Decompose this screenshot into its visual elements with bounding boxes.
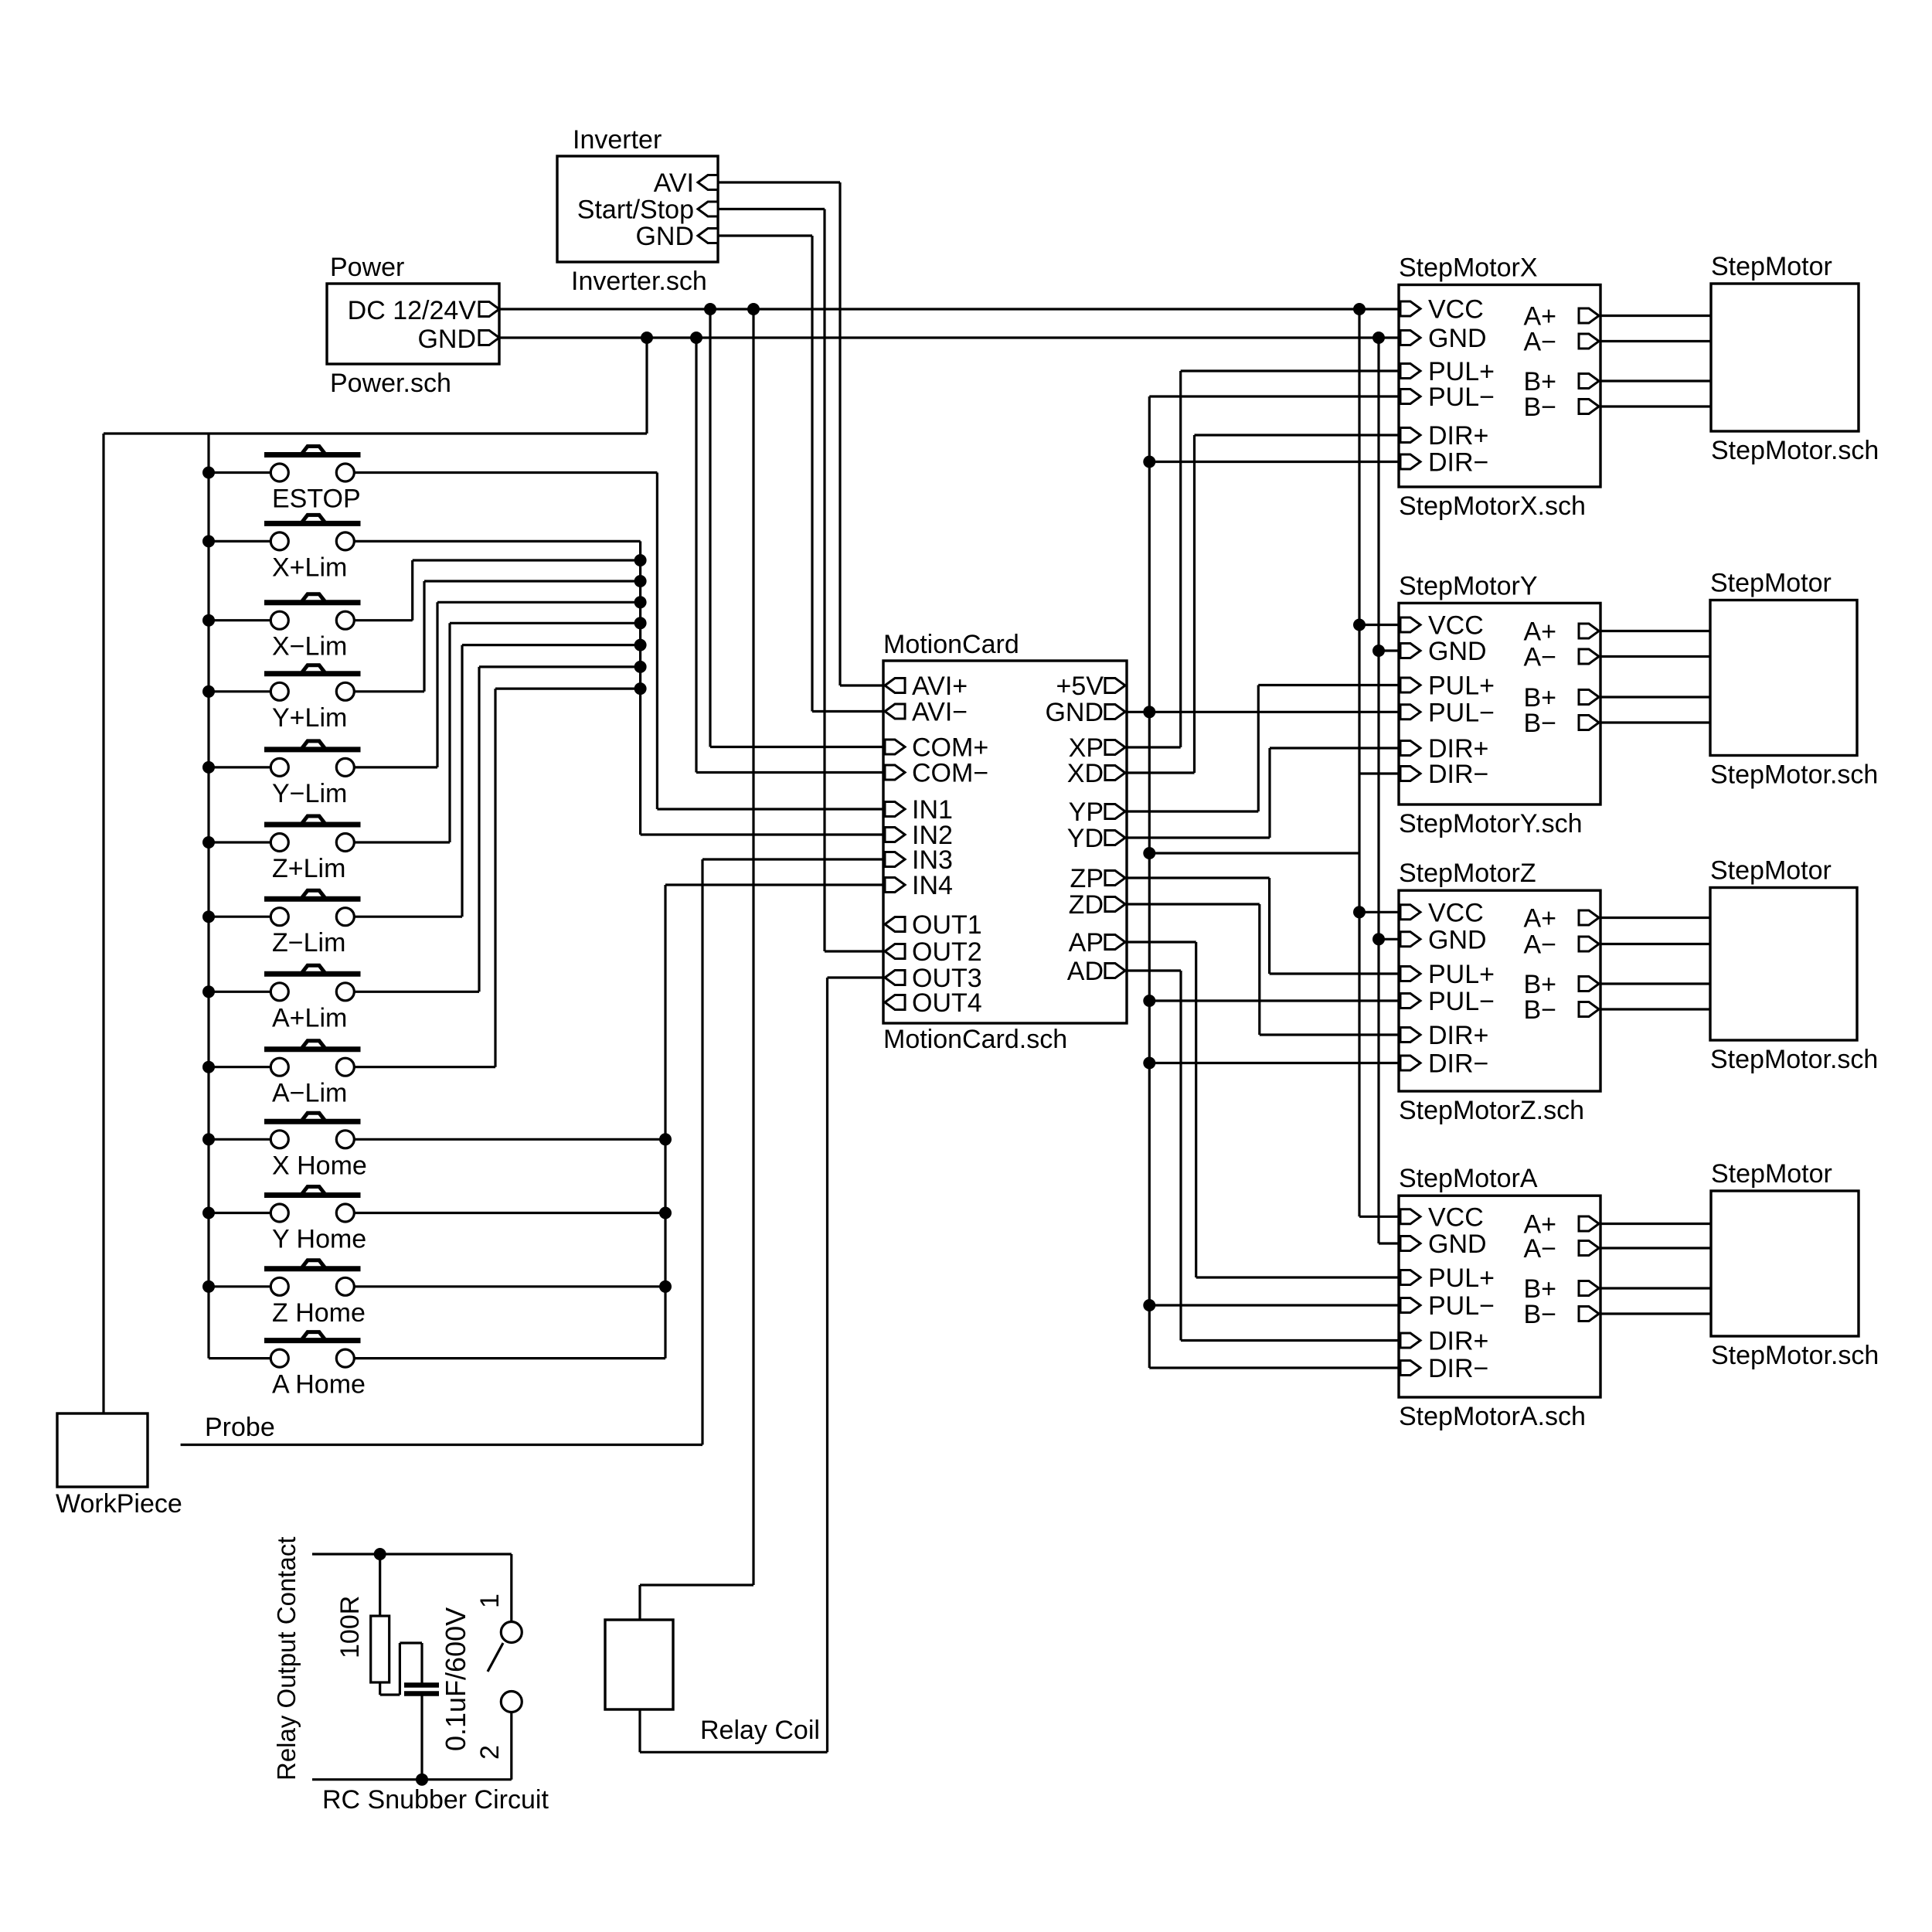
pin GND (StepMotorZ) xyxy=(1400,932,1420,947)
junction bus / ESTOP row xyxy=(202,467,215,479)
WorkPiece block xyxy=(57,1413,148,1487)
wire COM bus to X PUL- xyxy=(1149,395,1399,397)
svg-text:OUT4: OUT4 xyxy=(912,988,982,1018)
junction merge bus / Z+Lim xyxy=(634,617,647,629)
relay coil K1 xyxy=(605,1620,673,1709)
svg-text:ZP: ZP xyxy=(1070,864,1104,893)
StepMotor box (motor for X axis) xyxy=(1711,284,1859,431)
svg-text:DIR+: DIR+ xyxy=(1428,421,1488,451)
pin A+ (StepMotorA) xyxy=(1579,1216,1599,1231)
svg-text:ZD: ZD xyxy=(1069,890,1104,920)
wire YP net: MotionCard YP to StepMotorY PUL+ xyxy=(1127,810,1258,812)
Power block xyxy=(327,284,499,364)
wire COM bus to A PUL- xyxy=(1149,1304,1399,1306)
relay contact lever xyxy=(488,1643,503,1672)
svg-text:AD: AD xyxy=(1067,957,1104,986)
wire GND rail (Power to StepMotorX GND) xyxy=(499,336,1399,338)
switch X+Lim xyxy=(264,521,361,526)
RC snubber: top rail xyxy=(312,1553,512,1555)
wire Home bus to IN4 xyxy=(665,883,883,886)
svg-text:IN4: IN4 xyxy=(912,871,953,900)
wire Y A- to motor xyxy=(1600,655,1710,658)
svg-text:X+Lim: X+Lim xyxy=(272,553,347,582)
switch X Home xyxy=(264,1119,361,1124)
wire bus to Z−Lim switch xyxy=(209,916,270,918)
wire VCC bus vertical xyxy=(1358,309,1360,1216)
switch X−Lim xyxy=(264,600,361,605)
svg-text:Relay Output Contact: Relay Output Contact xyxy=(272,1537,301,1781)
junction DC rail / COM+ drop xyxy=(704,303,716,315)
svg-text:PUL−: PUL− xyxy=(1428,383,1495,412)
svg-text:B−: B− xyxy=(1523,995,1556,1025)
junction merge bus / Y-Lim xyxy=(634,596,647,608)
switch A−Lim xyxy=(264,1046,361,1052)
svg-text:GND: GND xyxy=(1428,925,1487,954)
wire Z A+ to motor xyxy=(1600,917,1710,919)
svg-text:A+: A+ xyxy=(1523,904,1556,934)
pin OUT4 (MotionCard left) xyxy=(885,995,905,1010)
junction COM bus / Y DIR- jog xyxy=(1143,847,1155,859)
junction VCC bus / Y VCC xyxy=(1353,619,1366,631)
svg-text:StepMotorX.sch: StepMotorX.sch xyxy=(1399,492,1586,521)
wire XD net: MotionCard XD to StepMotorX DIR+ xyxy=(1127,771,1195,774)
pin YD (MotionCard right) xyxy=(1105,831,1125,845)
junction COM bus / Z PUL- xyxy=(1143,995,1155,1007)
svg-text:DIR+: DIR+ xyxy=(1428,1021,1488,1050)
svg-text:MotionCard.sch: MotionCard.sch xyxy=(883,1025,1067,1054)
pin PUL- (StepMotorZ) xyxy=(1400,994,1420,1009)
wire Y A+ to motor xyxy=(1600,630,1710,632)
pin PUL+ (StepMotorY) xyxy=(1400,678,1420,692)
pin DIR- (StepMotorA) xyxy=(1400,1361,1420,1376)
svg-text:AVI+: AVI+ xyxy=(912,672,968,701)
wire ESTOP to IN1 xyxy=(354,471,657,474)
MotionCard block U-MC xyxy=(883,661,1127,1023)
svg-text:StepMotorZ: StepMotorZ xyxy=(1399,859,1536,888)
wire A A- to motor xyxy=(1600,1247,1711,1249)
wire DC 12/24V rail (Power to StepMotorX VCC) xyxy=(499,308,1399,310)
wire GND bus to Y GND xyxy=(1379,649,1399,651)
svg-text:Z Home: Z Home xyxy=(272,1298,366,1328)
wire bus to Y Home switch xyxy=(209,1212,270,1214)
pin DIR+ (StepMotorY) xyxy=(1400,741,1420,756)
svg-text:DIR−: DIR− xyxy=(1428,1354,1488,1383)
wire Z Home to Home bus xyxy=(354,1285,665,1287)
wire Y DIR- from VCC-bus column xyxy=(1359,772,1399,774)
svg-text:VCC: VCC xyxy=(1428,611,1484,641)
switch ESTOP xyxy=(264,452,361,457)
pin B- (StepMotorX) xyxy=(1579,400,1599,414)
pin A+ (StepMotorX) xyxy=(1579,308,1599,323)
wire YD net: MotionCard YD to StepMotorY DIR+ xyxy=(1127,836,1270,838)
wire limit merge bus to IN2 xyxy=(641,833,883,835)
wire bus to X−Lim switch xyxy=(209,619,270,621)
svg-text:StepMotor: StepMotor xyxy=(1711,252,1832,281)
svg-text:StepMotor.sch: StepMotor.sch xyxy=(1710,760,1878,790)
wire VCC bus to Y VCC xyxy=(1359,624,1399,626)
svg-text:PUL−: PUL− xyxy=(1428,1291,1495,1321)
svg-text:X Home: X Home xyxy=(272,1151,367,1180)
wire COM bus vertical (MotionCard GND to PUL-/DIR- pins) xyxy=(1148,396,1151,1368)
wire X A- to motor xyxy=(1600,340,1711,342)
wire bus to ESTOP switch xyxy=(209,471,270,474)
svg-text:Y−Lim: Y−Lim xyxy=(272,779,347,808)
pin A- (StepMotorY) xyxy=(1579,649,1599,664)
junction snubber top / resistor xyxy=(374,1548,386,1560)
junction COM bus / X DIR- xyxy=(1143,456,1155,468)
wire Home bus vertical xyxy=(664,885,666,1359)
junction Home bus / Y Home xyxy=(659,1207,672,1219)
wire COM bus to Z PUL- xyxy=(1149,999,1399,1002)
wire bus to X Home switch xyxy=(209,1138,270,1141)
junction GND rail / GND bus xyxy=(1372,332,1385,344)
wire VCC bus to A VCC xyxy=(1359,1216,1399,1218)
svg-text:0.1uF/600V: 0.1uF/600V xyxy=(440,1607,471,1751)
junction bus / X+Lim row xyxy=(202,535,215,547)
pin AD (MotionCard right) xyxy=(1105,964,1125,978)
junction bus / Y+Lim row xyxy=(202,685,215,698)
svg-text:Power: Power xyxy=(330,253,404,282)
svg-text:ESTOP: ESTOP xyxy=(272,485,361,514)
wire bus to A−Lim switch xyxy=(209,1066,270,1068)
junction merge bus / X-Lim xyxy=(634,554,647,566)
junction bus / Z−Lim row xyxy=(202,910,215,923)
junction bus / A−Lim row xyxy=(202,1061,215,1073)
svg-text:A−: A− xyxy=(1523,1234,1556,1264)
svg-text:GND: GND xyxy=(1428,324,1487,353)
RC snubber: right drop to contact 1 xyxy=(510,1554,512,1622)
svg-text:StepMotorX: StepMotorX xyxy=(1399,253,1538,283)
pin DIR+ (StepMotorX) xyxy=(1400,428,1420,443)
pin VCC (StepMotorA) xyxy=(1400,1209,1420,1224)
svg-text:VCC: VCC xyxy=(1428,295,1484,325)
StepMotor box (motor for Z axis) xyxy=(1710,888,1857,1041)
svg-text:Probe: Probe xyxy=(205,1413,275,1442)
wire X B+ to motor xyxy=(1600,379,1711,382)
junction snubber bottom / capacitor xyxy=(416,1774,428,1786)
svg-text:VCC: VCC xyxy=(1428,1202,1484,1232)
junction bus / X Home row xyxy=(202,1133,215,1145)
wire OUT3 net: MotionCard OUT3 to Relay Coil bottom xyxy=(828,976,884,978)
pin DIR- (StepMotorX) xyxy=(1400,454,1420,469)
pin PUL- (StepMotorX) xyxy=(1400,389,1420,404)
wire X A+ to motor xyxy=(1600,315,1711,317)
svg-text:B−: B− xyxy=(1523,709,1556,738)
wire Z B+ to motor xyxy=(1600,982,1710,985)
switch A Home xyxy=(264,1338,361,1343)
switch Z Home xyxy=(264,1266,361,1271)
junction GND rail / switch common drop xyxy=(641,332,653,344)
svg-text:PUL+: PUL+ xyxy=(1428,1264,1495,1293)
pin B- (StepMotorA) xyxy=(1579,1307,1599,1321)
wire COM bus to Z DIR- xyxy=(1149,1062,1399,1064)
wire AD net: MotionCard AD to StepMotorA DIR+ xyxy=(1127,969,1181,971)
pin Start/Stop (Inverter) xyxy=(698,202,718,216)
svg-text:GND: GND xyxy=(1428,1230,1487,1259)
svg-text:StepMotorY.sch: StepMotorY.sch xyxy=(1399,809,1583,838)
svg-text:DIR+: DIR+ xyxy=(1428,1327,1488,1356)
junction bus / Z+Lim row xyxy=(202,836,215,849)
wire A Home to Home bus xyxy=(354,1357,665,1359)
pin OUT3 (MotionCard left) xyxy=(885,971,905,985)
pin PUL- (StepMotorA) xyxy=(1400,1298,1420,1313)
svg-text:Relay Coil: Relay Coil xyxy=(700,1716,820,1745)
svg-text:Inverter.sch: Inverter.sch xyxy=(571,267,707,296)
svg-text:100R: 100R xyxy=(335,1596,365,1658)
wire A B+ to motor xyxy=(1600,1287,1711,1289)
wire A-Lim to limit merge bus xyxy=(354,1066,495,1068)
junction COM bus / MotionCard GND xyxy=(1143,706,1155,718)
wire COM bus to X DIR- xyxy=(1149,461,1399,463)
StepMotorZ driver block xyxy=(1399,890,1600,1091)
svg-text:StepMotor: StepMotor xyxy=(1710,856,1832,886)
wire X+Lim to limit merge bus xyxy=(354,540,640,543)
svg-text:StepMotor.sch: StepMotor.sch xyxy=(1710,1045,1878,1074)
pin PUL+ (StepMotorA) xyxy=(1400,1270,1420,1285)
pin B- (StepMotorZ) xyxy=(1579,1002,1599,1017)
wire ZD net: MotionCard ZD to StepMotorZ DIR+ xyxy=(1127,903,1260,905)
StepMotor box (motor for A axis) xyxy=(1711,1191,1859,1336)
svg-text:Power.sch: Power.sch xyxy=(330,369,451,398)
svg-text:AVI−: AVI− xyxy=(912,698,968,727)
svg-text:Y+Lim: Y+Lim xyxy=(272,703,347,733)
pin DIR- (StepMotorY) xyxy=(1400,767,1420,781)
pin OUT1 (MotionCard left) xyxy=(885,917,905,932)
svg-text:XD: XD xyxy=(1067,759,1104,788)
wire X Home to Home bus xyxy=(354,1138,665,1141)
Inverter block xyxy=(557,156,718,262)
pin GND (Power) xyxy=(479,331,499,345)
pin ZD (MotionCard right) xyxy=(1105,897,1125,912)
pin A+ (StepMotorY) xyxy=(1579,624,1599,638)
wire bus to Z Home switch xyxy=(209,1285,270,1287)
pin A+ (StepMotorZ) xyxy=(1579,910,1599,925)
relay contact 2 terminal xyxy=(501,1692,522,1713)
pin OUT2 (MotionCard left) xyxy=(885,944,905,959)
svg-text:2: 2 xyxy=(475,1745,505,1760)
pin AVI (Inverter) xyxy=(698,175,718,190)
wire switch common horizontal feeder xyxy=(104,432,647,434)
svg-text:GND: GND xyxy=(1045,698,1104,727)
switch Y+Lim xyxy=(264,671,361,676)
wire COM bus to A DIR- xyxy=(1149,1366,1399,1369)
pin GND (StepMotorA) xyxy=(1400,1236,1420,1251)
svg-text:PUL+: PUL+ xyxy=(1428,960,1495,989)
svg-text:StepMotor.sch: StepMotor.sch xyxy=(1711,436,1879,465)
wire Z+Lim to limit merge bus xyxy=(354,841,450,843)
wire X B- to motor xyxy=(1600,405,1711,407)
switch Y Home xyxy=(264,1192,361,1198)
pin AVI- (MotionCard left) xyxy=(885,704,905,719)
svg-text:StepMotor: StepMotor xyxy=(1710,569,1832,598)
junction bus / X−Lim row xyxy=(202,614,215,627)
switch Y−Lim xyxy=(264,747,361,752)
junction DC rail / VCC bus xyxy=(1353,303,1366,315)
pin A- (StepMotorA) xyxy=(1579,1241,1599,1256)
svg-text:GND: GND xyxy=(635,222,694,251)
wire AP net: MotionCard AP to StepMotorA PUL+ xyxy=(1127,940,1196,943)
svg-text:MotionCard: MotionCard xyxy=(883,630,1019,659)
pin VCC (StepMotorX) xyxy=(1400,301,1420,316)
wire ZP net: MotionCard ZP to StepMotorZ PUL+ xyxy=(1127,876,1270,879)
pin PUL- (StepMotorY) xyxy=(1400,705,1420,719)
pin ZP (MotionCard right) xyxy=(1105,871,1125,886)
svg-text:Start/Stop: Start/Stop xyxy=(577,196,694,225)
pin AP (MotionCard right) xyxy=(1105,935,1125,950)
wire Start/Stop net: Inverter Start/Stop to MotionCard OUT2 xyxy=(718,208,825,210)
wire capacitor bottom lead xyxy=(420,1696,423,1780)
svg-text:GND: GND xyxy=(1428,637,1487,666)
wire resistor top lead xyxy=(379,1554,381,1616)
svg-text:A−: A− xyxy=(1523,328,1556,357)
junction bus / Y−Lim row xyxy=(202,761,215,774)
wire COM bus jog toward Y DIR- xyxy=(1149,852,1359,854)
pin +5V (MotionCard right) xyxy=(1105,679,1125,693)
pin DIR- (StepMotorZ) xyxy=(1400,1056,1420,1070)
svg-text:RC Snubber Circuit: RC Snubber Circuit xyxy=(322,1785,549,1815)
wire Y B+ to motor xyxy=(1600,696,1710,698)
wire A A+ to motor xyxy=(1600,1223,1711,1225)
wire Z A- to motor xyxy=(1600,943,1710,945)
wire switch common: GND rail drop to horizontal feeder xyxy=(645,338,648,434)
svg-text:DIR−: DIR− xyxy=(1428,448,1488,478)
svg-text:PUL−: PUL− xyxy=(1428,698,1495,727)
pin DIR+ (StepMotorZ) xyxy=(1400,1028,1420,1043)
svg-text:StepMotorY: StepMotorY xyxy=(1399,571,1538,600)
wire bus to A Home switch xyxy=(209,1357,270,1359)
svg-text:AVI: AVI xyxy=(654,168,694,198)
wire contact 2 to bottom rail xyxy=(510,1713,512,1780)
wire resistor bottom jog to capacitor xyxy=(379,1682,381,1695)
pin GND (MotionCard right) xyxy=(1105,705,1125,719)
wire Probe to IN3 xyxy=(181,1444,702,1446)
svg-text:GND: GND xyxy=(417,325,476,354)
wire bus to A+Lim switch xyxy=(209,991,270,993)
junction GND bus / Y GND xyxy=(1372,645,1385,657)
svg-text:Y Home: Y Home xyxy=(272,1225,366,1254)
pin GND (Inverter) xyxy=(698,229,718,243)
wire MotionCard GND pin straight through to Y PUL- xyxy=(1127,711,1399,713)
junction VCC bus / Z VCC xyxy=(1353,906,1366,918)
wire XP net: MotionCard XP to StepMotorX PUL+ xyxy=(1127,746,1181,748)
svg-text:StepMotorA.sch: StepMotorA.sch xyxy=(1399,1402,1586,1431)
wire bus to X+Lim switch xyxy=(209,540,270,543)
switch Z−Lim xyxy=(264,896,361,902)
switch A+Lim xyxy=(264,971,361,977)
svg-text:WorkPiece: WorkPiece xyxy=(56,1489,182,1519)
wire GND bus to Z GND xyxy=(1379,938,1399,940)
svg-text:Z+Lim: Z+Lim xyxy=(272,854,345,883)
wire VCC bus to Z VCC xyxy=(1359,911,1399,913)
wire X-Lim to limit merge bus xyxy=(354,619,412,621)
limit merge bus vertical xyxy=(639,541,641,835)
wire bus to Z+Lim switch xyxy=(209,841,270,843)
svg-text:PUL−: PUL− xyxy=(1428,987,1495,1016)
pin PUL+ (StepMotorX) xyxy=(1400,364,1420,379)
svg-text:A−: A− xyxy=(1523,930,1556,960)
junction merge bus / Z-Lim xyxy=(634,639,647,651)
wire GND bus to A GND xyxy=(1379,1242,1399,1244)
junction COM bus / Z DIR- xyxy=(1143,1057,1155,1070)
wire AVI net: Inverter AVI to MotionCard AVI+ xyxy=(718,181,840,183)
pin A- (StepMotorZ) xyxy=(1579,937,1599,951)
svg-text:YP: YP xyxy=(1069,798,1104,827)
pin B+ (StepMotorX) xyxy=(1579,374,1599,389)
svg-text:DIR−: DIR− xyxy=(1428,1049,1488,1079)
wire Inverter GND net to MotionCard AVI- xyxy=(718,234,812,236)
pin COM- (MotionCard left) xyxy=(885,765,905,780)
wire bus to Y+Lim switch xyxy=(209,690,270,692)
pin GND (StepMotorX) xyxy=(1400,331,1420,345)
svg-text:StepMotorA: StepMotorA xyxy=(1399,1164,1538,1193)
wire ESTOP bus (left vertical common) xyxy=(207,434,209,1359)
junction COM bus / A PUL- xyxy=(1143,1299,1155,1311)
wire relay coil supply: DC rail down to Relay Coil top xyxy=(752,309,754,1585)
wire COM- net: GND rail to MotionCard COM- xyxy=(695,338,697,773)
capacitor C1 plates xyxy=(404,1682,439,1688)
svg-text:+5V: +5V xyxy=(1056,672,1104,701)
pin COM+ (MotionCard left) xyxy=(885,740,905,754)
pin VCC (StepMotorZ) xyxy=(1400,905,1420,920)
svg-text:DC 12/24V: DC 12/24V xyxy=(348,296,477,325)
pin XP (MotionCard right) xyxy=(1105,740,1125,755)
svg-text:Z−Lim: Z−Lim xyxy=(272,928,345,957)
junction DC rail / relay supply drop xyxy=(747,303,760,315)
junction Home bus / X Home xyxy=(659,1133,672,1145)
svg-text:VCC: VCC xyxy=(1428,898,1484,927)
svg-text:B−: B− xyxy=(1523,393,1556,422)
wire Z B- to motor xyxy=(1600,1008,1710,1010)
wire bus to Y−Lim switch xyxy=(209,766,270,768)
junction merge bus / Y+Lim xyxy=(634,575,647,587)
svg-text:PUL+: PUL+ xyxy=(1428,672,1495,701)
pin IN2 (MotionCard left) xyxy=(885,828,905,842)
pin B+ (StepMotorA) xyxy=(1579,1281,1599,1296)
StepMotorY driver block xyxy=(1399,603,1600,804)
wire Y Home to Home bus xyxy=(354,1212,665,1214)
wire COM+ net: DC rail to MotionCard COM+ xyxy=(709,309,711,747)
svg-text:YD: YD xyxy=(1067,824,1104,853)
RC snubber: bottom rail xyxy=(312,1778,512,1781)
pin GND (StepMotorY) xyxy=(1400,644,1420,658)
svg-text:OUT2: OUT2 xyxy=(912,937,982,967)
pin DIR+ (StepMotorA) xyxy=(1400,1333,1420,1348)
svg-text:AP: AP xyxy=(1069,928,1104,957)
svg-text:X−Lim: X−Lim xyxy=(272,632,347,662)
StepMotorA driver block xyxy=(1399,1196,1600,1397)
junction GND bus / Z GND xyxy=(1372,933,1385,945)
svg-text:COM−: COM− xyxy=(912,759,988,788)
pin AVI+ (MotionCard left) xyxy=(885,679,905,693)
wire Y B- to motor xyxy=(1600,721,1710,723)
wire Z-Lim to limit merge bus xyxy=(354,916,462,918)
wire to WorkPiece xyxy=(102,434,104,1413)
junction GND rail / COM- drop xyxy=(690,332,702,344)
svg-text:DIR−: DIR− xyxy=(1428,760,1488,789)
pin YP (MotionCard right) xyxy=(1105,804,1125,819)
wire A B- to motor xyxy=(1600,1312,1711,1315)
junction bus / A+Lim row xyxy=(202,985,215,998)
pin DC 12/24V (Power) xyxy=(479,302,499,317)
pin B- (StepMotorY) xyxy=(1579,716,1599,730)
junction bus / Z Home row xyxy=(202,1281,215,1293)
svg-text:1: 1 xyxy=(475,1594,505,1608)
pin IN3 (MotionCard left) xyxy=(885,852,905,867)
svg-text:StepMotor: StepMotor xyxy=(1711,1159,1832,1189)
wire Y-Lim to limit merge bus xyxy=(354,766,437,768)
StepMotor box (motor for Y axis) xyxy=(1710,600,1857,756)
svg-text:A+Lim: A+Lim xyxy=(272,1003,347,1032)
